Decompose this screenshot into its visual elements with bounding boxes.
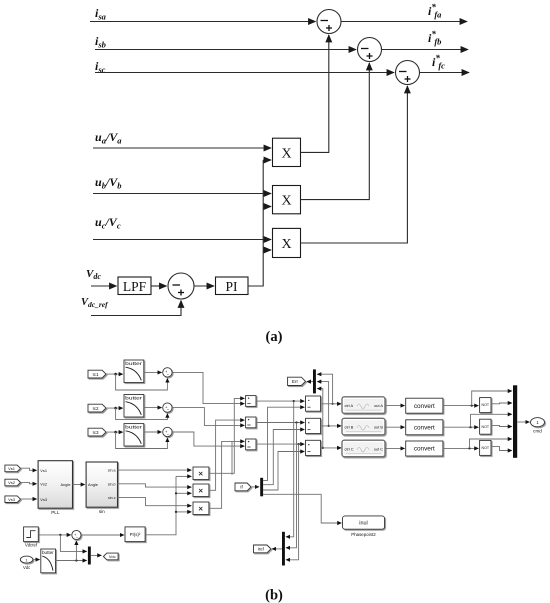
svg-text:out A: out A	[374, 403, 383, 408]
butter filter 1	[124, 360, 144, 383]
svg-text:Ic2: Ic2	[92, 406, 99, 411]
wire u_b/V_b to X2	[93, 193, 271, 195]
block PI	[216, 277, 249, 295]
wire PI tap to X3	[263, 249, 271, 251]
wire DB tap to Err mux	[317, 382, 328, 426]
wire Vs3 to PLL	[21, 498, 37, 500]
svg-text:sin.b: sin.b	[108, 482, 116, 486]
wire NOT2 to mux	[491, 425, 512, 426]
block LPF	[118, 277, 151, 295]
block convert1	[406, 398, 443, 413]
wire convert1 to NOT1	[443, 405, 478, 407]
from tag Ic2	[88, 404, 106, 412]
wire butter 1 to summer	[144, 371, 162, 373]
goto tag Iref	[254, 545, 271, 553]
summer sum3	[163, 427, 172, 436]
svg-text:butter: butter	[125, 361, 143, 366]
summer sum1	[163, 368, 172, 377]
relay block H2	[246, 417, 256, 428]
wire butter 3 to summer	[144, 431, 162, 433]
svg-text:PI(s)²: PI(s)²	[130, 532, 141, 537]
subsystem ctrl B	[342, 418, 385, 435]
block convert3	[406, 441, 443, 456]
wire mux to goto Vdc	[91, 554, 101, 556]
wire If.3 to DC	[263, 452, 304, 491]
wire X2 output to S2	[301, 63, 370, 200]
block inul Phasepoint2	[343, 516, 385, 529]
wire S3 output i*_fc	[420, 72, 470, 74]
wire i_sa to summer S1	[90, 21, 316, 23]
wire sum2 to hysteresis comparator H2	[172, 408, 244, 426]
wire reference tap 3 to Iref mux	[286, 444, 298, 560]
demux If	[260, 478, 263, 497]
wire butter4 tap to summer S5	[75, 541, 77, 561]
wire butter 2 to summer	[144, 407, 162, 409]
goto tag Vdc	[103, 553, 118, 560]
block convert2	[406, 420, 443, 435]
wire mux to outport cmd	[517, 421, 529, 423]
svg-text:butter: butter	[125, 424, 143, 429]
wire stub vertical	[231, 441, 233, 475]
wire Ic3 to butter filter 3	[106, 431, 123, 433]
svg-text:Err: Err	[292, 379, 299, 384]
wire If to demux	[251, 486, 259, 488]
wire Vs1 to PLL	[21, 468, 37, 470]
wire convert3 direct to mux	[470, 439, 512, 448]
multiplier X2	[273, 186, 301, 214]
svg-text:ctrl B: ctrl B	[345, 425, 354, 430]
wire DA tap to Err mux	[317, 374, 332, 404]
wire NOT3 to mux	[491, 447, 512, 451]
wire Vdcref tap to mux Vdc	[60, 535, 86, 552]
svg-text:convert: convert	[414, 424, 435, 431]
svg-text:X: X	[281, 146, 291, 161]
svg-text:cmd: cmd	[533, 429, 542, 434]
svg-text:Vdc: Vdc	[109, 554, 116, 559]
wire u_a/V_a to X1	[93, 147, 271, 149]
svg-text:sin.a: sin.a	[108, 469, 117, 473]
wire Iref* tap to P3	[176, 511, 191, 513]
wire PLL to sin	[73, 484, 85, 486]
svg-text:Vs3: Vs3	[40, 497, 47, 502]
wire PI tap to X2	[263, 206, 271, 208]
svg-text:inul: inul	[359, 521, 367, 527]
wire H1 to DA	[256, 400, 304, 402]
relay block H3	[246, 439, 256, 450]
wire P1 to H1	[209, 398, 244, 473]
svg-text:out B: out B	[374, 425, 383, 430]
from tag Vs2	[5, 479, 21, 486]
subsystem ctrl A	[342, 397, 385, 414]
wire Vdcref to summer S5	[38, 534, 70, 536]
wire Err mux output to Err tag	[307, 381, 313, 383]
svg-text:(a): (a)	[266, 329, 283, 345]
butter filter 3	[124, 424, 144, 446]
wire i_sc to summer S3	[95, 72, 394, 74]
wire If.2 to DB	[263, 430, 304, 485]
wire Ic1 to butter filter 1	[106, 373, 123, 375]
svg-text:butter: butter	[42, 550, 54, 555]
from tag Ic1	[88, 370, 106, 378]
svg-text:NOT: NOT	[482, 403, 490, 407]
svg-text:NOT: NOT	[482, 446, 490, 450]
summer S5	[72, 530, 81, 539]
wire ctrl A to convert1	[385, 405, 404, 407]
wire convert3 to NOT3	[443, 447, 478, 449]
from tag Vs3	[5, 496, 21, 503]
wire If.1 to DA	[263, 407, 304, 480]
svg-text:Vs2: Vs2	[40, 482, 47, 487]
summer S4	[168, 273, 194, 299]
wire LPF to summer S4	[151, 285, 167, 287]
mux cmd	[513, 385, 517, 458]
svg-text:X: X	[281, 237, 291, 252]
wire Iref* tap to P1	[176, 475, 191, 477]
product block P3	[193, 502, 209, 515]
wire X1 output to S1	[301, 35, 329, 152]
wire DA to ctrl A	[321, 403, 342, 405]
relay block H1	[246, 396, 256, 407]
wire S2 output i*_fb	[382, 49, 469, 51]
from tag Ic3	[88, 428, 106, 436]
svg-text:ctrl A: ctrl A	[345, 403, 354, 408]
wire sin.b to P2	[118, 484, 192, 487]
outport cmd	[531, 418, 545, 427]
svg-text:Vs1: Vs1	[40, 468, 47, 473]
product block P2	[193, 484, 209, 497]
feedback wire Ic1 to summer 1	[116, 374, 168, 390]
wire u_c/V_c to X3	[93, 239, 271, 241]
wire V_dc to LPF	[91, 285, 117, 287]
wire convert2 direct to mux	[471, 414, 512, 427]
multiplier X3	[273, 228, 301, 257]
svg-text:PI: PI	[225, 279, 238, 294]
wire P3 to H3	[209, 441, 244, 508]
wire DB to ctrl B	[321, 425, 342, 427]
wire ctrl B to convert2	[385, 426, 404, 428]
wire reference tap 1 to Iref mux	[286, 401, 294, 537]
block PLL	[38, 461, 72, 509]
wire V_dc_ref to S4	[91, 301, 181, 316]
wire convert2 to NOT2	[443, 426, 478, 428]
sum block DB	[306, 418, 321, 433]
svg-text:sin.c: sin.c	[108, 496, 116, 500]
svg-text:sin: sin	[99, 509, 105, 514]
wire ctrl C to convert3	[385, 447, 404, 449]
svg-text:Vs3: Vs3	[8, 497, 16, 502]
wire sin.c to P3	[118, 498, 192, 506]
svg-text:LPF: LPF	[123, 279, 147, 294]
wire sum3 to hysteresis comparator H3	[172, 432, 244, 446]
step block Vdcref	[24, 527, 39, 542]
svg-text:ctrl C: ctrl C	[345, 447, 354, 452]
wire Ic2 to butter filter 2	[106, 407, 123, 409]
wire S1 output i*_fa	[341, 21, 467, 23]
logic block NOT3	[480, 440, 491, 455]
svg-text:Angle: Angle	[61, 482, 71, 487]
feedback wire Ic2 to summer 2	[116, 408, 168, 420]
wire S5 to PI(s)2	[81, 534, 124, 536]
from tag If	[235, 483, 251, 491]
wire H2 to DB	[256, 422, 304, 424]
svg-text:Angle: Angle	[88, 482, 98, 487]
block sin	[86, 462, 117, 507]
svg-text:PLL: PLL	[51, 510, 60, 515]
svg-text:convert: convert	[414, 403, 435, 410]
wire If.4 to inul	[263, 494, 341, 523]
svg-text:Ic3: Ic3	[92, 430, 99, 435]
block PI(s)^2	[125, 527, 145, 542]
svg-text:1: 1	[26, 558, 28, 562]
goto tag Err	[288, 377, 306, 385]
feedback wire Ic3 to summer 3	[116, 432, 168, 448]
wire PI tap to X1	[263, 159, 271, 161]
wire convert1 direct to mux	[472, 391, 512, 406]
sum block DA	[306, 396, 321, 411]
wire DC tap to Err mux	[317, 389, 322, 448]
wire NOT1 to mux	[491, 402, 512, 405]
product block P1	[193, 467, 209, 480]
svg-text:Ic1: Ic1	[92, 372, 99, 377]
from tag Vs1	[5, 465, 21, 472]
logic block NOT1	[480, 398, 491, 413]
wire sum1 to hysteresis comparator H1	[172, 372, 244, 403]
logic block NOT2	[480, 419, 491, 434]
svg-text:Phasepoint2: Phasepoint2	[351, 532, 376, 537]
wire reference tap 2 to Iref mux	[286, 423, 296, 548]
svg-text:Vs2: Vs2	[8, 480, 16, 485]
wire H3 to DC	[256, 443, 304, 445]
summer sum2	[163, 403, 172, 412]
svg-text:Vs1: Vs1	[8, 466, 16, 471]
wire Iref* tap to P2	[176, 492, 191, 494]
butter filter 2	[124, 395, 144, 418]
svg-text:butter: butter	[125, 395, 143, 400]
svg-text:X: X	[281, 194, 291, 209]
wire PI(s)2 to products	[145, 476, 176, 534]
summer S2	[358, 38, 382, 62]
svg-text:Vdcref: Vdcref	[25, 543, 38, 548]
wire butter4 to mux Vdc	[56, 560, 87, 562]
svg-text:Iref: Iref	[258, 547, 265, 552]
svg-text:Vdc: Vdc	[23, 565, 30, 570]
multiplier X1	[273, 138, 301, 166]
wire sin.a to P1	[118, 469, 192, 471]
svg-text:convert: convert	[414, 446, 435, 453]
mux Iref	[282, 532, 285, 566]
wire S4 to PI	[194, 285, 214, 287]
wire Iref mux to Iref tag	[272, 548, 282, 550]
wire P2 to H2	[209, 420, 244, 490]
subsystem ctrl C	[342, 440, 385, 457]
butter filter 4	[41, 549, 56, 573]
wire Vdc to butter filter 4	[33, 559, 40, 561]
inport Vdc	[20, 556, 33, 563]
wire i_sb to summer S2	[95, 49, 356, 51]
svg-text:NOT: NOT	[482, 425, 490, 429]
svg-text:(b): (b)	[265, 588, 283, 603]
mux Vdc	[88, 547, 91, 565]
svg-text:out C: out C	[374, 447, 383, 452]
sum block DC	[306, 440, 321, 455]
wire Vs2 to PLL	[21, 482, 37, 483]
wire X3 output to S3	[301, 86, 408, 243]
wire DC to ctrl C	[321, 447, 342, 449]
mux Err	[313, 369, 316, 393]
summer S3	[396, 61, 420, 85]
wire PI output to multipliers	[248, 160, 263, 286]
summer S1	[317, 10, 341, 34]
